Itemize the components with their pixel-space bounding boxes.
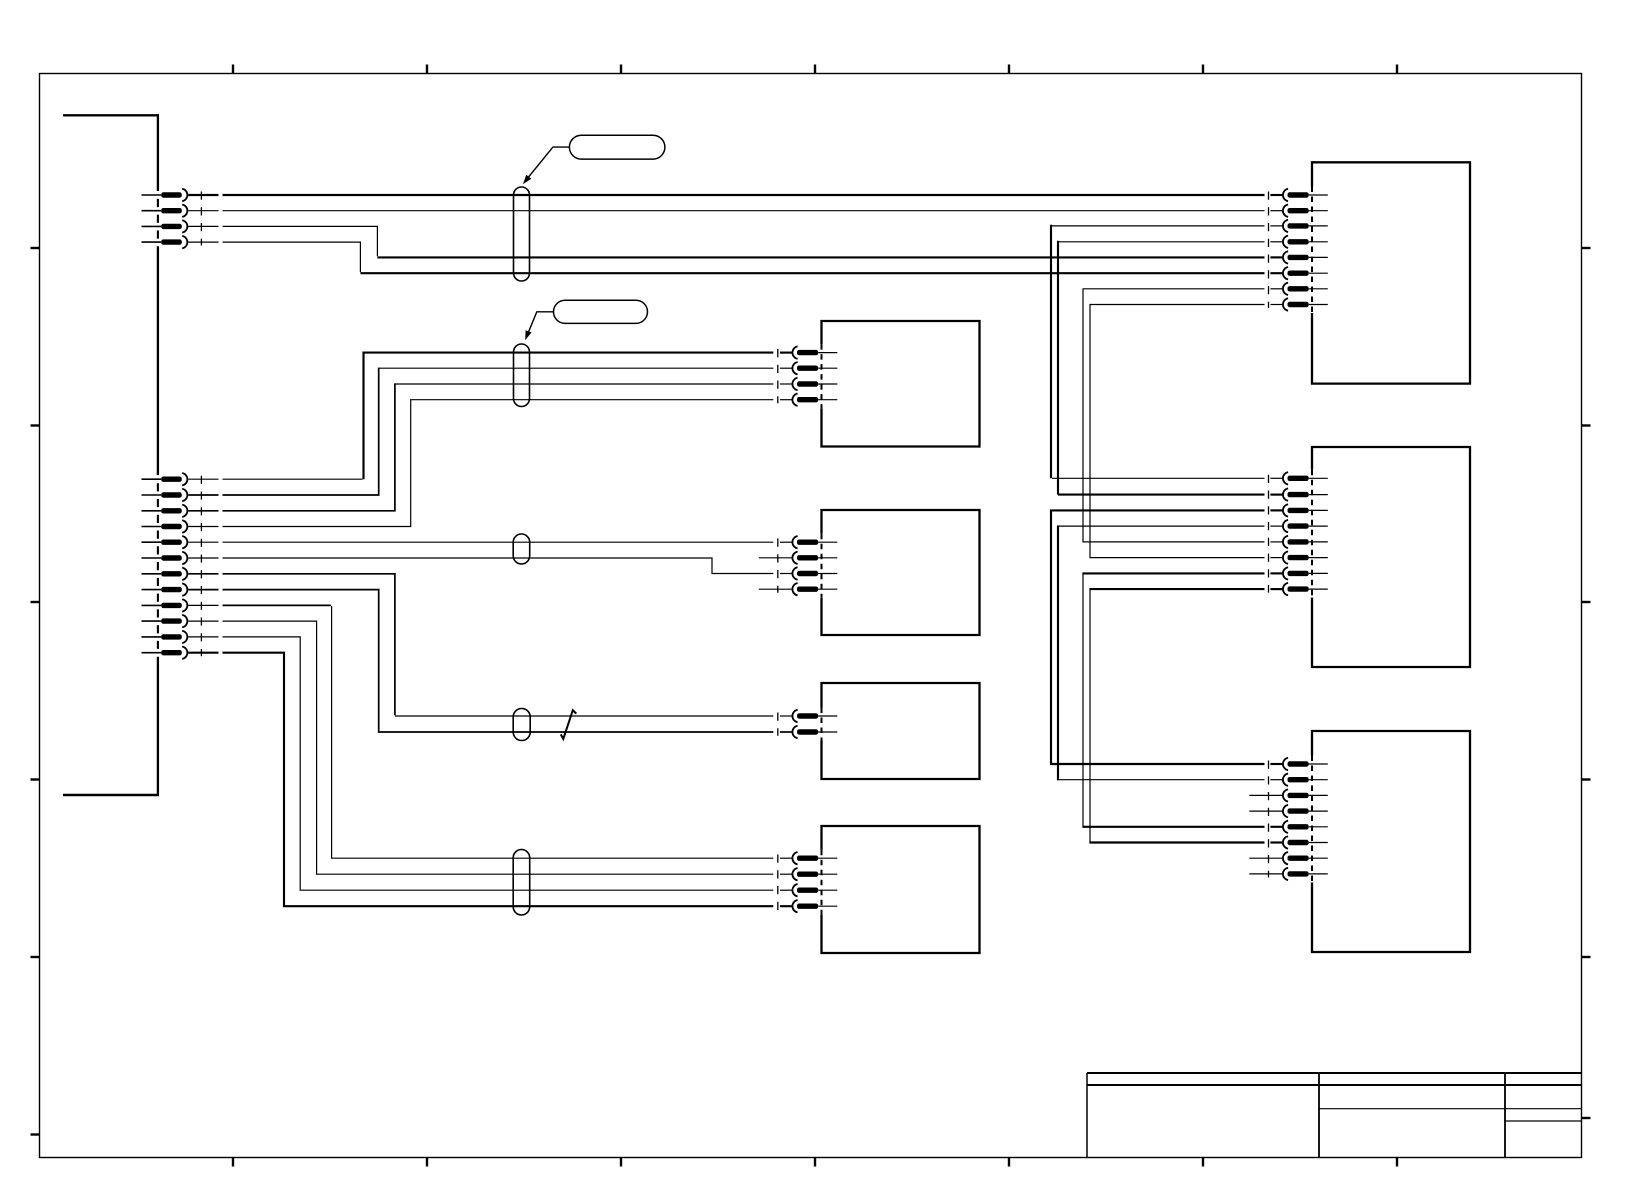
U6 pin 7: [1270, 567, 1327, 579]
wire U6.7 to U7.5: [1082, 573, 1264, 826]
wire U6.4 to U7.2: [1057, 525, 1264, 780]
component box U7: [1312, 731, 1470, 952]
component box U2: [822, 510, 980, 635]
U1 pin 3: [780, 378, 837, 390]
connector J1 pin 5: [142, 473, 219, 485]
component box U6: [1312, 447, 1470, 667]
wire U5.8 to U6.6: [1090, 305, 1265, 558]
wire J1.1 to U5.1: [223, 194, 1265, 196]
U6 pin 5: [1270, 536, 1327, 548]
U2 pin 2: [759, 552, 838, 564]
U6 pin dashed tie: [1268, 475, 1270, 593]
connector J1 pin 2: [142, 205, 219, 217]
U4 pin 3: [780, 884, 837, 896]
U6 pin 8: [1270, 583, 1327, 595]
U7 pin 4: [1249, 805, 1328, 817]
wire J1.2 to U5.2: [223, 210, 1265, 212]
connector J1 pin group 5-16 dashed tie: [200, 476, 202, 657]
U5 pin 6: [1270, 267, 1327, 279]
connector J1 pin 11: [142, 568, 219, 580]
connector J1 pin 15: [142, 631, 219, 643]
U4 pin 4: [780, 900, 837, 912]
wire U5.7 to U6.5: [1083, 289, 1265, 542]
twisted-pair symbol: [561, 710, 577, 739]
wire J1.16 to U4.4: [223, 653, 774, 907]
connector J1 pin 14: [142, 615, 219, 627]
U3 pin 2: [780, 726, 837, 738]
U7 pin dashed tie: [1268, 761, 1270, 878]
wire J1.12 to U3.2: [223, 590, 774, 732]
wire U6.8 to U7.6: [1089, 589, 1264, 842]
U6 pin 2: [1270, 488, 1327, 500]
wire J1.13 to U4.1: [223, 605, 774, 858]
U5 pin 2: [1270, 205, 1327, 217]
U7 pin 7: [1249, 852, 1328, 864]
U4 pin dashed tie: [777, 855, 779, 911]
U1 pin 2: [780, 362, 837, 374]
U6 pin 4: [1270, 520, 1327, 532]
U6 pin 6: [1270, 551, 1327, 563]
U5 pin 7: [1270, 283, 1327, 295]
connector J1 pin 8: [142, 520, 219, 532]
wire U5.4 to U6.2: [1058, 241, 1265, 495]
U5 pin dashed tie: [1268, 192, 1270, 309]
U5 pin 1: [1270, 189, 1327, 201]
connector J1 body: [63, 114, 159, 795]
component box U3: [822, 683, 980, 779]
wire J1.11 to U3.1: [223, 574, 774, 716]
U7 pin 5: [1270, 821, 1327, 833]
wire J1.14 to U4.2: [223, 621, 774, 874]
U3 pin dashed tie: [777, 713, 779, 736]
wire J1.6 to U1.2: [223, 368, 774, 495]
U2 pin 4: [759, 583, 838, 595]
U4 pin 1: [780, 852, 837, 864]
connector J1 pin 10: [142, 552, 219, 564]
wire J1.9 to U2.1: [223, 541, 774, 543]
component box U1: [822, 321, 980, 447]
U3 pin 1: [780, 710, 837, 722]
connector J1 pin 7: [142, 505, 219, 517]
cable shield S5: [513, 850, 530, 916]
U2 pin dashed tie: [777, 539, 779, 593]
connector J1 pin 12: [142, 583, 219, 595]
connector J1 pin 1: [142, 189, 219, 201]
connector J1 pin group 1-4 dashed tie: [200, 192, 202, 246]
wire J1.7 to U1.3: [223, 383, 774, 510]
connector J1 pin 16: [142, 647, 219, 659]
connector J1 pin 4: [142, 236, 219, 248]
wire U6.3 to U7.1: [1051, 510, 1265, 764]
wire J1.15 to U4.3: [223, 637, 774, 890]
wire J1.5 to U1.1: [223, 353, 774, 480]
wire J1.8 to U1.4: [223, 400, 774, 527]
cable shield S1: [514, 187, 530, 281]
cable shield S2: [514, 344, 530, 407]
U2 pin 3: [780, 567, 837, 579]
cable shield S3: [513, 534, 530, 564]
U1 pin 4: [780, 394, 837, 406]
wire U5.3 to U6.1: [1051, 225, 1265, 478]
connector J1 pin 13: [142, 599, 219, 611]
U7 pin 6: [1270, 836, 1327, 848]
U5 pin 8: [1270, 298, 1327, 310]
connector J1 pin 9: [142, 536, 219, 548]
U2 pin 1: [780, 536, 837, 548]
component box U5: [1312, 162, 1470, 383]
wire J1.4 to U5.6: [223, 242, 1265, 273]
callout label L1: [523, 135, 665, 184]
wire J1.10 to U2.3: [223, 558, 774, 574]
wire J1.3 to U5.5: [223, 226, 1265, 257]
cable shield S4: [513, 709, 530, 741]
U5 pin 3: [1270, 220, 1327, 232]
U7 pin 3: [1249, 789, 1328, 801]
U1 pin 1: [780, 346, 837, 358]
U6 pin 3: [1270, 504, 1327, 516]
U5 pin 5: [1270, 251, 1327, 263]
U4 pin 2: [780, 868, 837, 880]
U7 pin 2: [1270, 774, 1327, 786]
component box U4: [822, 826, 980, 953]
callout label L2: [525, 300, 647, 340]
title block: [1087, 1073, 1582, 1158]
U7 pin 1: [1270, 758, 1327, 770]
U5 pin 4: [1270, 236, 1327, 248]
U7 pin 8: [1249, 868, 1328, 880]
connector J1 pin 3: [142, 220, 219, 232]
U1 pin dashed tie: [777, 349, 779, 403]
U6 pin 1: [1270, 472, 1327, 484]
connector J1 pin 6: [142, 489, 219, 501]
